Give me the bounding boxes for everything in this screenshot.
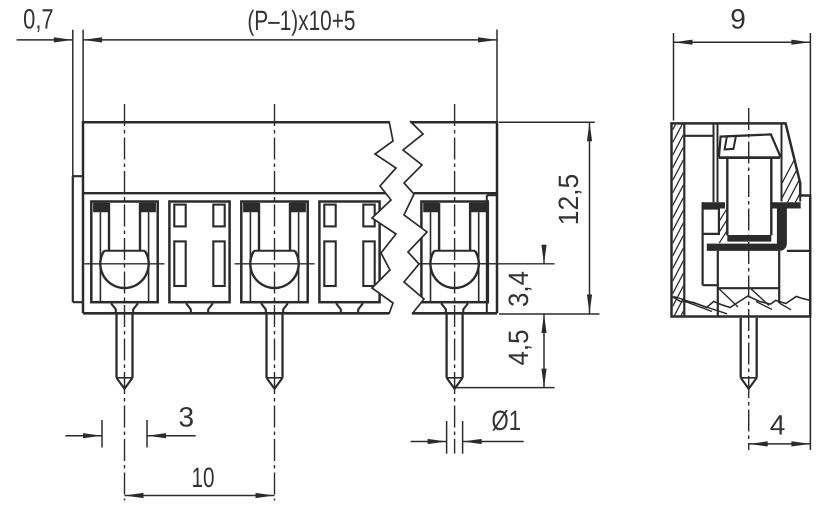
extension line x=83.1 [82, 30, 84, 122]
svg-text:12,5: 12,5 [553, 174, 584, 226]
extension lines 3 [102, 420, 147, 448]
break tick 4 [684, 301, 712, 312]
svg-text:3: 3 [179, 402, 195, 433]
pole 2 funnel [261, 303, 288, 313]
pole 2 centerline [274, 104, 276, 501]
break tick 2 [751, 289, 769, 306]
arrow big dim right [478, 37, 497, 42]
arrow O1 right [463, 439, 482, 444]
arrow 12,5 top [587, 122, 592, 141]
side lower cavity [718, 251, 779, 316]
extension lines O1 [447, 421, 463, 454]
extension line top right [499, 121, 595, 123]
arrow 4 right [791, 441, 810, 446]
arrow 10 right [256, 493, 275, 498]
dimension line 3 [65, 435, 195, 437]
break tick 6 [779, 303, 791, 310]
pole 2 screw cell [235, 202, 315, 303]
arrow 3 left [83, 433, 102, 438]
arrow 9 left [674, 40, 693, 45]
svg-text:3,4: 3,4 [503, 271, 534, 307]
break line right zigzag [403, 121, 427, 314]
side wedge inner vertical [799, 183, 801, 202]
pole 1 pin [117, 315, 133, 389]
dimension line 0,7 and (P-1)x10+5 [17, 39, 497, 41]
side clamp section hatch panel [719, 209, 727, 243]
last pole pin [447, 315, 463, 389]
dimension line O1 [411, 441, 524, 443]
slot cavity 4 funnel [336, 303, 363, 313]
slot cavity 2 funnel [186, 303, 213, 313]
dimension line 12,5 [589, 122, 591, 313]
side left wall hatching [673, 109, 684, 332]
pole 1 funnel [111, 303, 138, 313]
side body outline [672, 123, 811, 316]
svg-text:10: 10 [192, 462, 215, 493]
extension line 9 left [673, 33, 675, 121]
dimension line 10 [125, 495, 275, 497]
break gap white-out [372, 121, 427, 314]
slot cavity 4 [319, 202, 379, 303]
side screw head [719, 134, 780, 157]
side chamber left wall [703, 202, 718, 285]
extension line pin tip [456, 387, 555, 389]
side screw slot [725, 136, 736, 150]
left end wall protrusion [73, 176, 83, 302]
svg-text:(P–1)x10+5: (P–1)x10+5 [247, 5, 355, 36]
arrow 3,4 down to axis [541, 245, 546, 264]
side left box [703, 209, 719, 234]
side screw head bottom edge [719, 156, 780, 159]
last pole centerline [454, 104, 456, 454]
arrow 10 left [125, 493, 144, 498]
extension line 9 right / 4 right [809, 33, 811, 450]
break line left zigzag [372, 121, 396, 314]
arrow at 0,7 right / big dim left [83, 37, 102, 42]
dimension line 4,5 [543, 314, 545, 388]
break tick 5 [756, 302, 772, 310]
front body bottom edge [83, 312, 497, 315]
last pole axis line [419, 263, 555, 265]
side cavity right wall [781, 123, 783, 201]
arrow at 0,7 left [54, 37, 73, 42]
svg-text:4: 4 [770, 410, 786, 441]
side clamp left flange [703, 202, 725, 208]
last pole funnel [441, 303, 468, 313]
side clamp right flange [771, 202, 801, 208]
arrow 3 right [147, 433, 166, 438]
pole 1 centerline [124, 104, 126, 501]
side screw body [727, 158, 771, 236]
front body right edge [496, 121, 499, 313]
arrow 4,5 down [541, 369, 546, 388]
arrow 4,5 up [541, 314, 546, 333]
svg-text:Ø1: Ø1 [492, 405, 522, 436]
side wedge hatching [770, 128, 828, 206]
break tick 3 [674, 297, 727, 314]
svg-text:0,7: 0,7 [23, 3, 54, 34]
front body cover ledge [83, 192, 497, 194]
right end wall inner line [487, 195, 497, 313]
front body left edge [82, 121, 85, 313]
arrow 4 left [749, 441, 768, 446]
pole 1 screw cell [85, 202, 165, 303]
last pole screw cell [415, 202, 495, 303]
arrow 12,5 bottom [587, 295, 592, 314]
extension line x=72.8 [72, 30, 74, 177]
side right ledge [787, 250, 810, 252]
svg-text:9: 9 [730, 3, 746, 34]
svg-text:4,5: 4,5 [503, 330, 534, 366]
dimension line 9 [674, 41, 811, 43]
side cavity left wall [714, 123, 718, 202]
dimension line 3,4 upper [543, 245, 545, 264]
pole 2 pin [267, 315, 283, 389]
extension line x=497 [496, 30, 498, 122]
side freehand break line [671, 296, 810, 308]
arrow 9 right [791, 40, 810, 45]
side pin [741, 318, 757, 389]
extension line bottom right [499, 313, 600, 315]
side recess ledge [684, 135, 713, 137]
slot cavity 2 [169, 202, 229, 303]
side screw tip band [727, 235, 771, 242]
front body top edge [83, 121, 497, 124]
side left wall inner edge [683, 123, 685, 316]
side clamp yoke [707, 209, 787, 251]
side centerline [748, 108, 750, 450]
break tick 1 [719, 289, 738, 307]
dimension line 4 [749, 443, 811, 445]
arrow O1 left [428, 439, 447, 444]
